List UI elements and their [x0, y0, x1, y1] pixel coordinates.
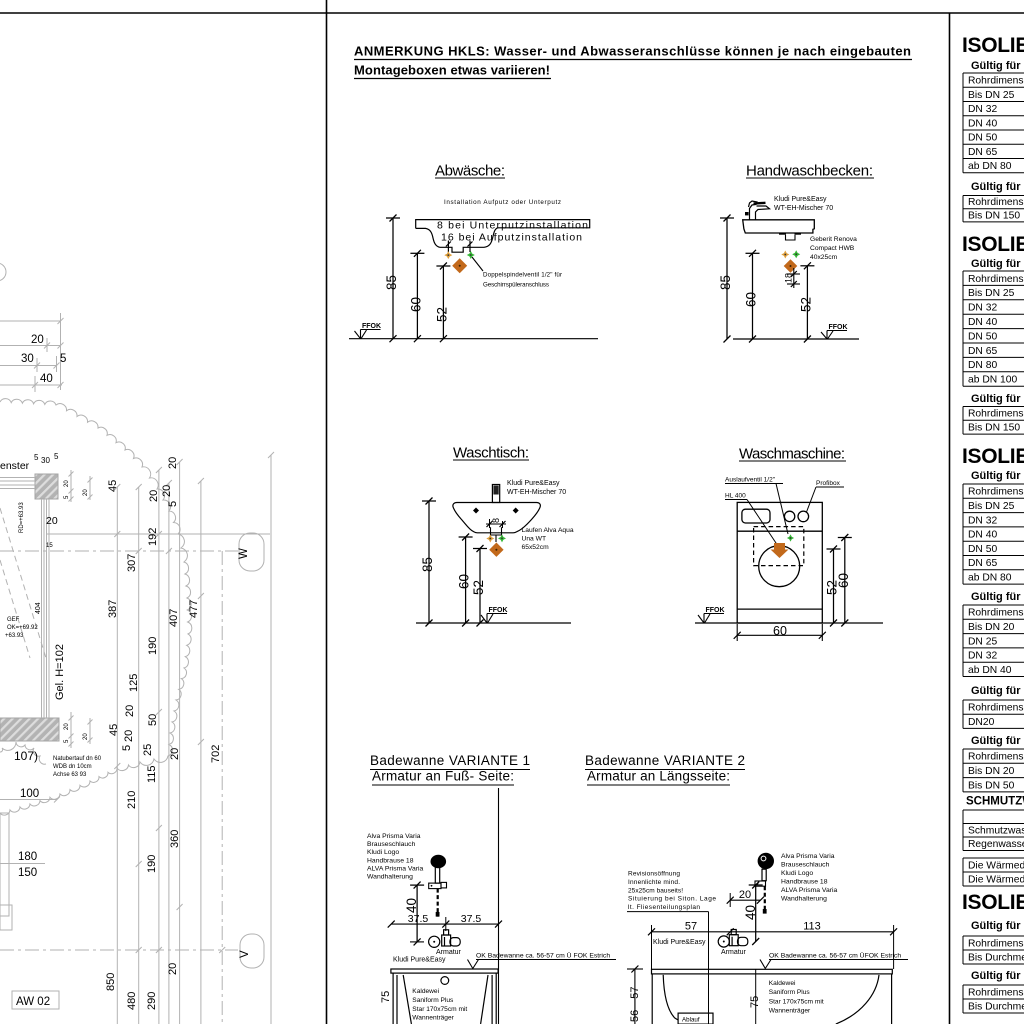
product text block V2 — [781, 853, 838, 903]
svg-text:Kludi Pure&Easy: Kludi Pure&Easy — [393, 957, 446, 964]
svg-text:DN20: DN20 — [968, 717, 995, 728]
svg-text:Kludi Pure&Easy: Kludi Pure&Easy — [507, 480, 560, 487]
svg-text:60: 60 — [836, 573, 851, 588]
axis marker V — [240, 934, 264, 968]
svg-text:Kludi Pure&Easy: Kludi Pure&Easy — [653, 939, 706, 946]
dim 40 V1 — [404, 882, 424, 946]
svg-text:Regenwasser: Regenwasser — [968, 839, 1024, 850]
svg-text:Wandhalterung: Wandhalterung — [781, 896, 827, 903]
svg-text:DN 80: DN 80 — [968, 360, 997, 371]
svg-text:Badewanne VARIANTE 2: Badewanne VARIANTE 2 — [585, 753, 745, 768]
svg-text:Kaldewei: Kaldewei — [769, 980, 796, 987]
axis marker W — [239, 533, 264, 571]
svg-text:Bis DN 20: Bis DN 20 — [968, 622, 1015, 633]
svg-text:WT-EH-Mischer 70: WT-EH-Mischer 70 — [774, 205, 833, 212]
svg-text:20: 20 — [31, 334, 44, 346]
svg-text:Rohrdimension: Rohrdimension — [968, 938, 1024, 949]
svg-text:Rohrdimension: Rohrdimension — [968, 274, 1024, 285]
svg-text:5: 5 — [167, 501, 179, 507]
dim 56-57 V2 — [634, 969, 636, 1024]
dimension 52 Waschmaschine — [825, 546, 841, 627]
svg-text:Gültig für r: Gültig für r — [971, 470, 1024, 482]
svg-text:Bis DN 20: Bis DN 20 — [968, 766, 1015, 777]
svg-text:DN 32: DN 32 — [968, 515, 997, 526]
svg-text:Situierung bei Siton. Lage: Situierung bei Siton. Lage — [628, 896, 716, 903]
separator vertical line — [498, 788, 500, 1024]
svg-text:20: 20 — [83, 733, 89, 740]
svg-text:37.5: 37.5 — [461, 913, 482, 925]
svg-text:5: 5 — [64, 495, 70, 499]
svg-text:115: 115 — [146, 765, 158, 783]
svg-text:+63.93: +63.93 — [5, 633, 24, 639]
svg-text:40: 40 — [404, 898, 419, 913]
svg-text:107): 107) — [14, 749, 38, 763]
svg-text:150: 150 — [18, 867, 37, 879]
svg-text:V: V — [239, 950, 251, 958]
svg-text:5: 5 — [64, 739, 70, 743]
small gray arc at left edge — [0, 263, 6, 281]
svg-text:40: 40 — [40, 373, 53, 385]
svg-text:Handwaschbecken:: Handwaschbecken: — [746, 163, 873, 180]
svg-text:DN 50: DN 50 — [968, 331, 997, 342]
connection markers Handwaschbecken — [781, 251, 789, 259]
svg-text:40: 40 — [743, 905, 758, 920]
svg-text:407: 407 — [168, 609, 180, 627]
svg-text:Saniform Plus: Saniform Plus — [769, 989, 811, 996]
product text block V1 — [367, 833, 424, 881]
svg-text:56—57: 56—57 — [629, 987, 641, 1022]
svg-text:DN 32: DN 32 — [968, 303, 997, 314]
svg-text:387: 387 — [107, 600, 119, 618]
svg-text:404: 404 — [35, 602, 42, 614]
svg-text:75: 75 — [749, 996, 761, 1008]
svg-text:Doppelspindelventil 1/2" für: Doppelspindelventil 1/2" für — [483, 272, 562, 279]
svg-text:25: 25 — [142, 744, 154, 756]
svg-text:20: 20 — [123, 730, 135, 742]
svg-text:Gültig für r: Gültig für r — [971, 685, 1024, 697]
dimension 60 Waschmaschine — [836, 534, 852, 627]
svg-text:60: 60 — [744, 292, 759, 307]
svg-text:Saniform Plus: Saniform Plus — [412, 997, 454, 1004]
bathtub V2 — [652, 969, 893, 974]
svg-text:Waschtisch:: Waschtisch: — [453, 445, 529, 462]
svg-text:20: 20 — [169, 748, 181, 760]
svg-text:Bis DN 25: Bis DN 25 — [968, 501, 1015, 512]
dimension 52 Abwäsche — [435, 263, 451, 343]
svg-text:190: 190 — [147, 637, 159, 655]
basin Waschtisch — [453, 503, 540, 533]
svg-text:30: 30 — [41, 456, 50, 465]
svg-text:ISOLIERUNG: ISOLIERUNG — [962, 34, 1024, 57]
svg-text:20: 20 — [161, 485, 173, 497]
dimension 60 Waschtisch — [457, 534, 473, 627]
svg-text:ANMERKUNG HKLS: Wasser- und Ab: ANMERKUNG HKLS: Wasser- und Abwasseransc… — [354, 44, 911, 59]
svg-text:Laufen Alva Aqua: Laufen Alva Aqua — [522, 527, 574, 534]
svg-text:8 bei Unterputzinstallation: 8 bei Unterputzinstallation — [437, 220, 588, 232]
dimension 85 Abwäsche — [384, 215, 400, 343]
svg-text:Kaldewei: Kaldewei — [412, 988, 439, 995]
svg-text:Rohrdimension: Rohrdimension — [968, 487, 1024, 498]
svg-text:Star 170x75cm mit: Star 170x75cm mit — [412, 1006, 467, 1013]
bottom width dim 60 — [736, 624, 738, 641]
svg-text:OK=+69.92: OK=+69.92 — [7, 625, 38, 631]
tap Handwaschbecken — [749, 201, 770, 220]
svg-text:Brauseschlauch: Brauseschlauch — [367, 841, 416, 848]
svg-text:ab DN 80: ab DN 80 — [968, 161, 1012, 172]
revision cloud — [0, 399, 192, 816]
svg-text:ab DN 100: ab DN 100 — [968, 375, 1018, 386]
svg-text:Geberit Renova: Geberit Renova — [810, 236, 857, 243]
svg-text:57: 57 — [685, 921, 697, 933]
svg-text:Wandhalterung: Wandhalterung — [367, 874, 413, 881]
svg-text:192: 192 — [147, 528, 159, 546]
svg-text:RD=+63.93: RD=+63.93 — [19, 502, 25, 533]
svg-text:ALVA Prisma Varia: ALVA Prisma Varia — [781, 887, 838, 894]
svg-text:DN 50: DN 50 — [968, 544, 997, 555]
svg-text:Installation Aufputz oder Unte: Installation Aufputz oder Unterputz — [444, 199, 561, 206]
svg-text:Geschirrspüleranschluss: Geschirrspüleranschluss — [483, 282, 549, 289]
dimension 60 Abwäsche — [409, 250, 425, 342]
svg-text:85: 85 — [420, 557, 435, 572]
svg-text:DN 40: DN 40 — [968, 118, 997, 129]
ground line Abwäsche — [349, 338, 598, 340]
svg-text:GEF: GEF — [7, 617, 20, 623]
svg-text:ISOLIERUNG: ISOLIERUNG — [962, 233, 1024, 256]
svg-text:Gel. H=102: Gel. H=102 — [54, 644, 66, 700]
svg-text:85: 85 — [384, 275, 399, 290]
FFOK marker Waschtisch — [489, 607, 508, 614]
svg-text:Star 170x75cm mit: Star 170x75cm mit — [769, 998, 824, 1005]
svg-text:Innenlichte mind.: Innenlichte mind. — [628, 879, 680, 886]
svg-text:Bis DN 150: Bis DN 150 — [968, 423, 1020, 434]
svg-text:ab DN 40: ab DN 40 — [968, 665, 1012, 676]
svg-text:5: 5 — [34, 453, 39, 462]
svg-text:AW 02: AW 02 — [16, 996, 50, 1008]
svg-text:16 bei Aufputzinstallation: 16 bei Aufputzinstallation — [441, 232, 582, 244]
svg-text:290: 290 — [146, 992, 158, 1010]
svg-text:Kludi Pure&Easy: Kludi Pure&Easy — [774, 196, 827, 203]
dimension 85 Handwaschbecken — [718, 215, 734, 343]
svg-text:Bis Durchmesser: Bis Durchmesser — [968, 1001, 1024, 1012]
svg-text:100: 100 — [20, 788, 39, 800]
svg-text:Profibox: Profibox — [816, 480, 841, 487]
svg-text:enster: enster — [0, 460, 30, 472]
svg-text:Montageboxen etwas variieren!: Montageboxen etwas variieren! — [354, 63, 550, 78]
svg-text:850: 850 — [105, 973, 117, 991]
drain arrow marker (orange) — [771, 543, 789, 558]
svg-text:Kludi Logo: Kludi Logo — [781, 870, 813, 877]
svg-text:Bis DN 25: Bis DN 25 — [968, 288, 1015, 299]
svg-text:37.5: 37.5 — [408, 913, 429, 925]
svg-text:Gültig für r: Gültig für r — [971, 181, 1024, 193]
svg-text:DN 32: DN 32 — [968, 651, 997, 662]
svg-text:Rohrdimension: Rohrdimension — [968, 987, 1024, 998]
svg-text:Brauseschlauch: Brauseschlauch — [781, 862, 830, 869]
svg-text:50: 50 — [147, 714, 159, 726]
mixer tap V1 — [429, 930, 461, 948]
svg-text:125: 125 — [128, 674, 140, 692]
svg-text:15: 15 — [46, 543, 53, 549]
svg-text:Rohrdimension: Rohrdimension — [968, 752, 1024, 763]
svg-text:Waschmaschine:: Waschmaschine: — [739, 446, 845, 463]
svg-text:HL 400: HL 400 — [725, 493, 746, 500]
svg-text:Handbrause 18: Handbrause 18 — [781, 879, 828, 886]
svg-text:Alva Prisma Varia: Alva Prisma Varia — [367, 833, 421, 840]
bathtub V1 — [391, 969, 498, 973]
svg-text:Abwäsche:: Abwäsche: — [435, 163, 505, 180]
svg-text:Gültig für r: Gültig für r — [971, 970, 1024, 982]
svg-text:65x52cm: 65x52cm — [522, 544, 550, 551]
svg-text:60: 60 — [409, 297, 424, 312]
shower head V1 — [431, 855, 447, 869]
svg-text:45: 45 — [107, 480, 119, 492]
plan labels — [0, 460, 58, 527]
ground line Waschmaschine — [695, 622, 883, 624]
svg-text:20: 20 — [46, 515, 58, 527]
svg-text:360: 360 — [169, 830, 181, 848]
dim 40 V2 — [743, 882, 763, 946]
svg-text:DN 65: DN 65 — [968, 147, 997, 158]
svg-text:20: 20 — [124, 705, 136, 717]
FFOK marker Waschmaschine — [706, 607, 725, 614]
svg-text:Compact HWB: Compact HWB — [810, 245, 855, 252]
wall hatch pieces — [35, 474, 58, 499]
svg-text:52: 52 — [435, 307, 450, 322]
dim 20 V2 — [730, 899, 760, 901]
FFOK marker Handwaschbecken — [829, 324, 848, 331]
svg-text:5: 5 — [54, 452, 59, 461]
svg-text:OK Badewanne ca. 56-57 cm ÜFOK: OK Badewanne ca. 56-57 cm ÜFOK Estrich — [769, 952, 901, 960]
svg-text:DN 65: DN 65 — [968, 346, 997, 357]
svg-text:Armatur: Armatur — [721, 949, 747, 956]
Kaldewei text block V2 — [769, 980, 824, 1015]
svg-text:5: 5 — [60, 353, 66, 365]
svg-text:480: 480 — [126, 992, 138, 1010]
drain dim 8 Waschtisch — [489, 519, 491, 528]
dimension 52 Waschtisch — [471, 545, 487, 627]
svg-text:Gültig für r: Gültig für r — [971, 60, 1024, 72]
svg-text:Rohrdimension: Rohrdimension — [968, 608, 1024, 619]
svg-text:Bis DN 50: Bis DN 50 — [968, 780, 1015, 791]
svg-text:Armatur an Fuß- Seite:: Armatur an Fuß- Seite: — [372, 769, 514, 784]
svg-text:Armatur: Armatur — [436, 949, 462, 956]
mixer tap V2 — [718, 930, 748, 948]
svg-text:lt. Fliesenteilungsplan: lt. Fliesenteilungsplan — [628, 904, 700, 911]
svg-text:113: 113 — [803, 921, 821, 933]
washing machine body — [737, 502, 822, 623]
sink profile Abwäsche — [416, 220, 590, 253]
svg-text:85: 85 — [718, 275, 733, 290]
svg-text:Wannenträger: Wannenträger — [769, 1008, 811, 1015]
faucet Waschtisch — [492, 485, 499, 503]
connection markers Abwäsche — [444, 251, 452, 259]
svg-text:190: 190 — [146, 855, 158, 873]
svg-text:Ablauf: Ablauf — [682, 1017, 700, 1024]
svg-text:52: 52 — [799, 297, 814, 312]
svg-text:Una WT: Una WT — [522, 536, 547, 543]
svg-text:20: 20 — [148, 490, 160, 502]
svg-text:Die Wärmedämmung: Die Wärmedämmung — [968, 874, 1024, 885]
svg-text:OK Badewanne ca. 56-57 cm Ü FO: OK Badewanne ca. 56-57 cm Ü FOK Estrich — [476, 952, 610, 960]
svg-text:Revisionsöffnung: Revisionsöffnung — [628, 871, 680, 878]
svg-text:210: 210 — [126, 791, 138, 809]
svg-text:75: 75 — [380, 991, 392, 1003]
svg-text:Schmutzwasser: Schmutzwasser — [968, 825, 1024, 836]
svg-text:60: 60 — [457, 574, 472, 589]
svg-text:Rohrdimension: Rohrdimension — [968, 197, 1024, 208]
svg-text:25x25cm bauseits!: 25x25cm bauseits! — [628, 887, 683, 894]
connection markers Waschtisch — [486, 535, 494, 543]
dimension 60 Handwaschbecken — [744, 250, 760, 343]
svg-text:20: 20 — [739, 889, 751, 901]
dimension 52 Handwaschbecken — [799, 262, 815, 342]
svg-text:20: 20 — [64, 480, 70, 487]
svg-text:W: W — [238, 548, 250, 559]
svg-text:DN 65: DN 65 — [968, 558, 997, 569]
svg-text:30: 30 — [21, 353, 34, 365]
svg-text:Achse 63 93: Achse 63 93 — [53, 772, 87, 778]
svg-text:Gültig für r: Gültig für r — [971, 735, 1024, 747]
dim 57 / 113 V2 — [652, 931, 894, 933]
svg-text:40x25cm: 40x25cm — [810, 254, 838, 261]
svg-text:Alva Prisma Varia: Alva Prisma Varia — [781, 853, 835, 860]
plan vertical dimension lines — [117, 455, 271, 1024]
svg-text:ALVA Prisma Varia: ALVA Prisma Varia — [367, 865, 424, 872]
hose V1 — [437, 889, 439, 917]
svg-text:Armatur an Längsseite:: Armatur an Längsseite: — [587, 769, 730, 784]
FFOK marker Abwäsche — [362, 323, 381, 330]
svg-text:DN 40: DN 40 — [968, 530, 997, 541]
headline note — [354, 44, 911, 78]
svg-text:60: 60 — [773, 624, 787, 638]
svg-text:5: 5 — [121, 745, 133, 751]
svg-text:WT-EH-Mischer 70: WT-EH-Mischer 70 — [507, 489, 566, 496]
svg-text:20: 20 — [83, 489, 89, 496]
svg-text:Bis Durchmesser: Bis Durchmesser — [968, 952, 1024, 963]
svg-text:Handbrause 18: Handbrause 18 — [367, 857, 414, 864]
svg-text:20: 20 — [64, 723, 70, 730]
svg-text:20: 20 — [167, 457, 179, 469]
svg-text:Auslaufventil 1/2": Auslaufventil 1/2" — [725, 477, 776, 484]
svg-text:Die Wärmedämmung: Die Wärmedämmung — [968, 860, 1024, 871]
svg-text:ISOLIERUNG: ISOLIERUNG — [962, 445, 1024, 468]
svg-text:Badewanne VARIANTE 1: Badewanne VARIANTE 1 — [370, 753, 530, 768]
svg-text:18: 18 — [784, 273, 794, 283]
svg-text:307: 307 — [126, 554, 138, 572]
svg-text:Gültig für r: Gültig für r — [971, 591, 1024, 603]
svg-text:52: 52 — [471, 580, 486, 595]
svg-text:702: 702 — [210, 745, 222, 763]
connection marker (green) — [787, 534, 794, 541]
floor plan (background, gray) — [0, 313, 62, 392]
svg-text:SCHMUTZWASSER: SCHMUTZWASSER — [966, 796, 1024, 808]
svg-text:ISOLIERUNG: ISOLIERUNG — [962, 891, 1024, 914]
svg-text:ab DN 80: ab DN 80 — [968, 573, 1012, 584]
svg-text:180: 180 — [18, 851, 37, 863]
ground line Handwaschbecken — [733, 338, 859, 340]
small dim 18 Handwaschbecken — [793, 268, 795, 288]
svg-text:Wannenträger: Wannenträger — [412, 1015, 454, 1022]
svg-text:8: 8 — [491, 518, 501, 523]
svg-text:Kludi Logo: Kludi Logo — [367, 849, 399, 856]
frame border lines — [0, 12, 1024, 14]
dimension 85 Waschtisch — [420, 498, 436, 627]
svg-text:DN 32: DN 32 — [968, 104, 997, 115]
svg-text:Bis DN 150: Bis DN 150 — [968, 210, 1020, 221]
axis lines — [0, 551, 238, 1024]
ground line Waschtisch — [416, 622, 571, 624]
svg-text:DN 50: DN 50 — [968, 133, 997, 144]
svg-text:20: 20 — [167, 963, 179, 975]
svg-text:Gültig für r: Gültig für r — [971, 393, 1024, 405]
Revisionsöffnung text block V2 — [628, 871, 716, 912]
svg-text:477: 477 — [188, 600, 200, 618]
svg-text:45: 45 — [108, 724, 120, 736]
svg-text:Rohrdimension: Rohrdimension — [968, 409, 1024, 420]
svg-text:Gültig für r: Gültig für r — [971, 258, 1024, 270]
svg-text:Bis DN 25: Bis DN 25 — [968, 90, 1015, 101]
svg-text:Natubertauf dn 60: Natubertauf dn 60 — [53, 756, 102, 762]
basin Handwaschbecken — [743, 220, 815, 233]
svg-text:Rohrdimension: Rohrdimension — [968, 703, 1024, 714]
svg-text:WDB dn 10cm: WDB dn 10cm — [53, 764, 92, 770]
svg-text:Gültig für r: Gültig für r — [971, 920, 1024, 932]
svg-text:DN 25: DN 25 — [968, 636, 997, 647]
shower head V2 — [758, 853, 774, 869]
dim 37.5 / 37.5 V1 — [391, 923, 498, 925]
svg-text:Rohrdimension: Rohrdimension — [968, 76, 1024, 87]
svg-text:DN 40: DN 40 — [968, 317, 997, 328]
